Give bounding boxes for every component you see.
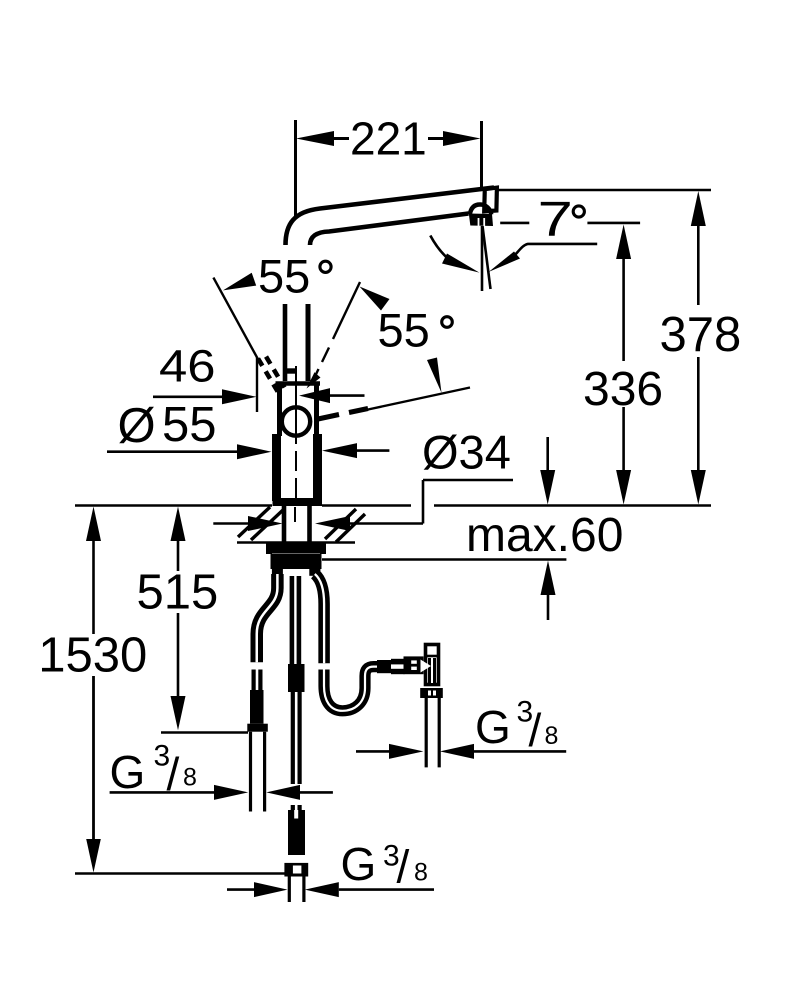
- dimension 46: left-pointing arrow at centerline: [299, 388, 330, 403]
- 55-degree left: angle dimension line: [213, 278, 258, 360]
- svg-text:55: 55: [162, 398, 217, 452]
- dimension 46: dimension line and right-pointing arrow: [153, 395, 223, 398]
- svg-text:G: G: [110, 746, 146, 798]
- left supply hose: solid fitting body: [250, 690, 264, 724]
- outlet hose: coupling block: [288, 664, 305, 692]
- G 3/8 label bottom: text: [341, 838, 428, 893]
- mounting nut: upper bar: [266, 544, 326, 555]
- 55-degree right: angle dimension line (near vertical, dashed lower): [314, 282, 360, 379]
- dimension D34: right arrow and tail: [315, 516, 350, 531]
- check valve: bottom nut: [420, 688, 443, 698]
- left supply hose: fitting section: [252, 670, 263, 693]
- dimension max.60: lower up-arrow: [541, 561, 556, 596]
- svg-text:1530: 1530: [38, 629, 147, 683]
- dimension 515: lower shaft and down-arrow: [177, 613, 180, 696]
- dimension max.60: bottom reference line: [322, 558, 566, 561]
- dimension 221: right arrow: [428, 131, 481, 146]
- 55-degree right: lower arrowhead: [307, 372, 321, 388]
- spout: upper outline: [286, 188, 495, 246]
- svg-text:378: 378: [660, 308, 742, 362]
- dimension 221: left arrow: [296, 131, 349, 146]
- G 3/8 right: dimension line with arrows: [356, 750, 390, 753]
- svg-text:515: 515: [137, 566, 219, 620]
- dimension D55: right arrow and tail: [322, 443, 357, 458]
- outlet hose: bottom pipe left wall: [288, 877, 291, 903]
- threaded shank right wall: [307, 506, 312, 542]
- deck hatching left: [238, 507, 283, 540]
- 55-degree left: arrowhead: [223, 273, 256, 291]
- spout aerator: dome: [470, 204, 492, 214]
- spout aerator: black band: [469, 214, 493, 227]
- outlet hose: upper section with white core: [290, 576, 302, 664]
- 7-degree swing arc left with arrow: [430, 236, 449, 260]
- handle upright: right line: [306, 304, 311, 381]
- 7-degree label underline segments: [500, 222, 529, 225]
- faucet body: lower flange right: [313, 434, 322, 501]
- 7-degree leader: arrow, curve and line to label: [489, 252, 520, 272]
- faucet body: lower flange left: [272, 434, 281, 501]
- faucet body: small step bar at handle base: [287, 368, 297, 373]
- svg-text:max.60: max.60: [466, 509, 623, 562]
- outlet hose: bottom pipe right wall: [302, 877, 305, 903]
- faucet base plate on deck: [273, 498, 323, 506]
- dimension 336: lower shaft and down-arrow: [622, 407, 625, 471]
- G 3/8 label left: text: [110, 740, 197, 801]
- dimension 378: lower shaft and down-arrow: [697, 357, 700, 471]
- faucet body: left side: [277, 383, 282, 436]
- right supply hose: bend from nut, with white core: [315, 574, 324, 663]
- G 3/8 bottom: dimension line with arrows: [227, 888, 256, 891]
- svg-text:221: 221: [350, 113, 427, 165]
- svg-text:8: 8: [414, 859, 428, 887]
- svg-text:8: 8: [545, 722, 559, 750]
- G 3/8 label right: text: [475, 696, 558, 757]
- check valve: body: [426, 645, 439, 685]
- check valve: inlet hex nut: [404, 656, 424, 674]
- svg-text:Ø: Ø: [118, 399, 156, 453]
- dimension 1530: lower shaft and down-arrow: [92, 676, 95, 840]
- dimension 336: upper shaft and up-arrow: [616, 225, 631, 260]
- mounting nut: white separation: [272, 554, 320, 556]
- dimension 221: right extension line: [480, 121, 483, 187]
- dimension 1530: upper shaft and up-arrow at deck: [86, 507, 101, 542]
- dimension max.60: upper down-arrow: [546, 437, 549, 471]
- left supply hose: valve nut: [247, 724, 267, 732]
- 55-degree right: upper arrowhead: [360, 287, 390, 311]
- dimension 46: extension line: [256, 357, 258, 412]
- faucet body: right side: [314, 383, 319, 436]
- faucet body: top edge: [276, 381, 321, 386]
- dimension D34: step leader vertical: [422, 480, 425, 524]
- right supply hose: braided coupling: [377, 660, 393, 673]
- faucet body: centerline: [295, 366, 297, 444]
- svg-text:/: /: [529, 704, 542, 756]
- left supply hose: bottom pipe: [249, 732, 252, 812]
- svg-text:55: 55: [378, 304, 430, 357]
- svg-text:G: G: [341, 838, 377, 890]
- dimension D34: left arrow and tail: [213, 522, 249, 525]
- dimension D34: underline: [423, 479, 513, 482]
- 7-degree angle: tilted line: [483, 226, 491, 289]
- 55-degree right: thin leader line: [368, 388, 470, 410]
- dimension 221: left extension line: [294, 120, 297, 216]
- spout: end cap: [484, 188, 497, 212]
- dimension 378: upper shaft and up-arrow: [691, 191, 706, 226]
- dimension D55: left line and arrow: [107, 450, 238, 453]
- dimension 515: bottom reference line: [161, 731, 248, 734]
- mounting nut: right foot: [309, 569, 320, 576]
- dimension 1530: bottom reference line: [75, 872, 286, 875]
- outlet hose: end fitting block: [288, 810, 305, 855]
- svg-text:G: G: [475, 701, 511, 753]
- handle upright: left line: [283, 304, 288, 381]
- G 3/8 left: dimension line with arrows: [110, 791, 215, 794]
- 7-degree angle: vertical reference line: [481, 226, 484, 291]
- 55-degree right: down arrowhead onto leader: [427, 358, 442, 393]
- svg-text:Ø34: Ø34: [422, 426, 511, 479]
- right supply hose: cored segment before valve: [391, 659, 405, 674]
- mounting nut: lower bar: [271, 554, 322, 569]
- deck hatching right: [325, 509, 365, 542]
- mounting nut: left foot: [272, 569, 283, 576]
- outlet hose: resume below dim line: [291, 805, 302, 811]
- check valve: flow triangle: [421, 660, 432, 673]
- dimension 515: upper shaft and up-arrow at deck: [171, 507, 186, 542]
- left supply hose: bend from nut, with white core: [257, 574, 278, 662]
- right supply pipe below valve: [425, 698, 428, 767]
- 55-degree right: horizontal dashed handle line: [318, 409, 368, 420]
- outlet hose: mid section with white core: [291, 692, 302, 784]
- svg-text:7: 7: [538, 192, 573, 246]
- svg-text:55: 55: [258, 250, 310, 303]
- threaded shank left wall: [282, 506, 287, 542]
- svg-text:46: 46: [159, 342, 216, 392]
- shank centerline dash: [294, 507, 296, 522]
- right supply hose: S-trap to check valve, with white core: [324, 667, 379, 711]
- outlet hose: end nut with white center: [284, 863, 308, 877]
- svg-text:/: /: [397, 841, 410, 893]
- dimension 378: top reference line: [498, 189, 711, 192]
- 55-degree left: tilted handle dashed outline: [258, 354, 285, 392]
- faucet body: lever joint circle: [282, 407, 310, 435]
- spout: lower outline: [310, 214, 469, 246]
- deck bottom line: [237, 541, 355, 544]
- svg-text:8: 8: [183, 764, 197, 792]
- countertop deck line: [75, 504, 272, 507]
